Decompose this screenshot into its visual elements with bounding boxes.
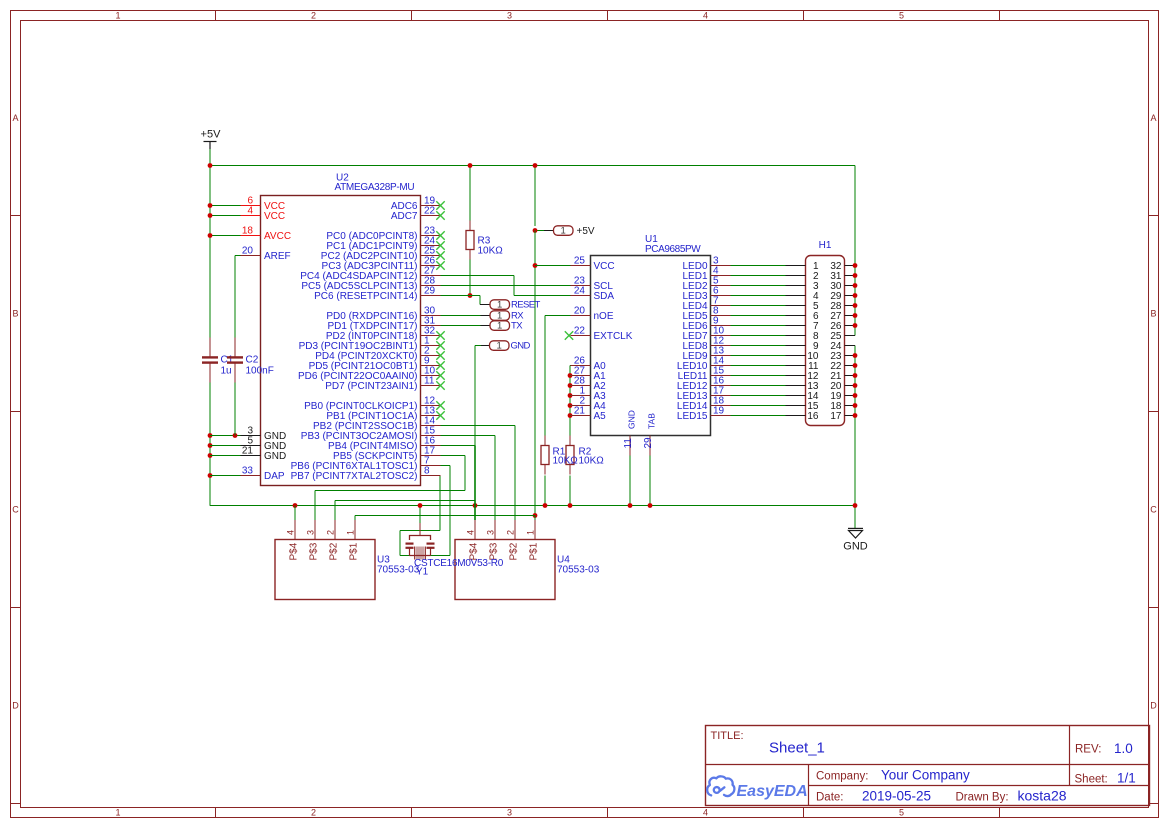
wire PC6 to RESET flag [441, 295, 481, 297]
junction R2 GND [568, 503, 573, 508]
U3 pin 2 P$2 [326, 520, 340, 561]
junction H1 gnd/vcc rail [853, 283, 858, 288]
power +5V symbol top-left [201, 129, 222, 150]
wire +5V top rail [210, 165, 855, 167]
wire PB7 to resonator left [439, 476, 441, 531]
wire LED2 to H1 [731, 285, 786, 287]
svg-text:11: 11 [424, 376, 435, 387]
U2 pin 25 PC2 (ADC2PCINT10) [321, 246, 445, 263]
svg-text:2: 2 [311, 808, 316, 818]
resistor R2 label [579, 447, 605, 467]
U1 pin 27 A1 [571, 366, 607, 383]
H1 pin 18 [830, 401, 855, 412]
U2 pin 1 PD3 (PCINT19OC2BINT1) [299, 336, 445, 353]
wire LED0 to H1 [731, 265, 786, 267]
svg-text:2: 2 [506, 530, 516, 535]
svg-text:33: 33 [242, 466, 254, 477]
junction VCC6 [208, 203, 213, 208]
wire bus2 +5V lower [355, 515, 535, 517]
svg-text:5: 5 [899, 808, 904, 818]
junction H1 gnd/vcc rail [853, 393, 858, 398]
svg-text:Company:: Company: [816, 771, 868, 783]
junction A pin [568, 383, 573, 388]
junction H1 gnd/vcc rail [853, 263, 858, 268]
U1 pin 15 LED11 [678, 366, 731, 383]
U2 pin 23 PC0 (ADC0PCINT8) [326, 226, 444, 243]
wire +5V flag stub green [535, 230, 544, 232]
wire U2 DAP to rail [210, 475, 241, 477]
junction A pin [568, 403, 573, 408]
svg-text:P$1: P$1 [349, 542, 360, 560]
wire LED9 to H1 [731, 355, 786, 357]
junction AVCC [208, 233, 213, 238]
H1 pin 12 [786, 371, 819, 382]
wire TX [441, 325, 481, 327]
svg-text:+5V: +5V [201, 129, 222, 141]
wire C2 bottom to GND rail [234, 383, 236, 436]
wire LED7 to H1 [731, 335, 786, 337]
junction A pin [568, 393, 573, 398]
wire LED12 to H1 [731, 385, 786, 387]
wire U2 GND pin5 to rail [210, 445, 241, 447]
junction U1 VCC net [533, 263, 538, 268]
wire LED4 to H1 [731, 305, 786, 307]
svg-text:4: 4 [286, 530, 296, 535]
svg-text:C2: C2 [246, 355, 259, 366]
U2 pin 10 PD6 (PCINT22OC0AAIN0) [298, 366, 445, 383]
svg-text:25: 25 [574, 256, 586, 267]
wire U2 GND pin3 to rail [210, 435, 241, 437]
title text [711, 730, 1136, 804]
U3 pin 4 P$4 [286, 520, 300, 561]
IC U1 PCA9685PW body [591, 234, 711, 436]
junction DAP [208, 473, 213, 478]
junction bus to gnd column [853, 503, 858, 508]
U2 pin 20 AREF [241, 246, 291, 263]
junction H1 gnd/vcc rail [853, 353, 858, 358]
wire GND bus to GND symbol [854, 166, 856, 336]
H1 pin 11 [786, 361, 819, 372]
resistor R3 10K [466, 221, 503, 260]
svg-text:16: 16 [807, 411, 819, 422]
wire A pin link [569, 375, 572, 377]
H1 pin 3 [786, 281, 819, 292]
svg-text:AVCC: AVCC [264, 231, 291, 242]
svg-text:LED15: LED15 [677, 411, 708, 422]
U2 pin 17 PB5 (SCKPCINT5) [333, 446, 440, 463]
H1 pin 13 [786, 381, 819, 392]
U2 pin 22 ADC7 [391, 206, 445, 223]
wire GND bus bottom [210, 505, 855, 507]
svg-text:8: 8 [424, 466, 430, 477]
wire resonator center to GND bus [419, 506, 421, 524]
wire A pin link [569, 405, 572, 407]
junction VCC4 [208, 213, 213, 218]
U1 pin 2 A4 [571, 396, 607, 413]
U2 pin 29 PC6 (RESETPCINT14) [314, 286, 440, 303]
wire PB5 to U3 P$3 [441, 455, 466, 457]
wire LED3 to H1 [731, 295, 786, 297]
H1 pin 5 [786, 301, 819, 312]
svg-text:AREF: AREF [264, 251, 291, 262]
svg-text:1: 1 [115, 11, 120, 21]
svg-text:B: B [12, 309, 18, 319]
wire A pin link [569, 415, 572, 417]
U2 pin 30 PD0 (RXDPCINT16) [326, 306, 440, 323]
frame column labels [115, 11, 904, 818]
svg-text:P$2: P$2 [329, 542, 340, 560]
H1 pin 29 [830, 291, 855, 302]
U2 pin 7 PB6 (PCINT6XTAL1TOSC1) [291, 456, 441, 473]
U1 pin 22 EXTCLK [565, 326, 633, 343]
U2 pin 4 VCC [241, 206, 286, 223]
wire U1 GND pin down [629, 456, 631, 506]
svg-text:C1: C1 [221, 355, 234, 366]
U1 pin 1 A3 [571, 386, 607, 403]
junction H1 gnd/vcc rail [853, 413, 858, 418]
wire resonator bottom link [400, 555, 450, 557]
H1 pin 7 [786, 321, 819, 332]
U1 pin 12 LED8 [682, 336, 730, 353]
title block [706, 726, 1150, 806]
wire U1 VCC [535, 265, 571, 267]
svg-text:21: 21 [242, 446, 254, 457]
capacitor C1 [202, 338, 234, 383]
junction H1 gnd/vcc rail [853, 273, 858, 278]
H1 pin 32 [830, 261, 855, 272]
U1 pin 8 LED5 [682, 306, 730, 323]
IC U2 ATMEGA328P-MU body [261, 173, 421, 486]
U2 pin 12 PB0 (PCINT0CLKOICP1) [304, 396, 445, 413]
svg-text:EasyEDA: EasyEDA [737, 783, 808, 800]
EasyEDA logo [707, 776, 807, 800]
wire +5V symbol to C1 / GND column left [209, 149, 211, 338]
U1 pin 7 LED4 [682, 296, 730, 313]
H1 pin 1 [786, 261, 819, 272]
U2 pin 9 PD5 (PCINT21OC0BT1) [309, 356, 445, 373]
wire LED5 to H1 [731, 315, 786, 317]
svg-text:PCA9685PW: PCA9685PW [645, 244, 701, 255]
H1 pin 9 [786, 341, 819, 352]
H1 pin 2 [786, 271, 819, 282]
svg-text:Your Company: Your Company [881, 768, 970, 783]
U1 pin 21 A5 [571, 406, 607, 423]
svg-text:4: 4 [703, 11, 708, 21]
resistor R1 10K [541, 436, 549, 475]
wire A0-A5 column to R2 [569, 366, 571, 436]
svg-text:2: 2 [311, 11, 316, 21]
svg-text:A: A [12, 113, 18, 123]
svg-text:EXTCLK: EXTCLK [594, 331, 633, 342]
connector U4 70553-03 body [455, 540, 600, 600]
wire R3 top [469, 166, 471, 221]
wire U2 VCC pin4 to rail [210, 215, 241, 217]
U1 pin 29 TAB bottom [643, 413, 657, 456]
junction +5V left [208, 163, 213, 168]
svg-text:4: 4 [703, 808, 708, 818]
U2 pin 31 PD1 (TXDPCINT17) [327, 316, 440, 333]
svg-text:P$3: P$3 [309, 542, 320, 560]
wire A pin link [569, 385, 572, 387]
U4 pin 2 P$2 [506, 520, 520, 561]
wire C1 lower to GND pins column [209, 383, 211, 506]
net flag +5V [544, 225, 595, 237]
U2 pin 21 GND [241, 446, 287, 463]
svg-text:ADC7: ADC7 [391, 211, 418, 222]
svg-text:P$2: P$2 [509, 542, 520, 560]
svg-text:TX: TX [511, 321, 523, 332]
svg-text:Sheet_1: Sheet_1 [769, 740, 825, 757]
U1 pin 28 A2 [571, 376, 607, 393]
wire LED13 to H1 [731, 395, 786, 397]
resistor R1 label [553, 447, 579, 467]
svg-text:3: 3 [486, 530, 496, 535]
wire nOE to R1 [545, 315, 571, 317]
H1 pin 21 [830, 371, 855, 382]
H1 pin 25 [830, 331, 855, 342]
U2 pin 18 AVCC [241, 226, 292, 243]
svg-text:B: B [1150, 309, 1156, 319]
wire U3 P$4 up to bus [294, 506, 296, 521]
wire +5V column to U1 VCC [534, 231, 536, 516]
U2 pin 2 PD4 (PCINT20XCKT0) [315, 346, 444, 363]
junction H1 gnd/vcc rail [853, 293, 858, 298]
svg-text:29: 29 [424, 286, 436, 297]
junction GND pin5 [208, 443, 213, 448]
H1 pin 16 [786, 411, 819, 422]
svg-text:1: 1 [526, 530, 536, 535]
H1 pin 14 [786, 391, 819, 402]
junction +5V flag [533, 228, 538, 233]
junction H1 gnd/vcc rail [853, 383, 858, 388]
svg-text:1: 1 [115, 808, 120, 818]
svg-text:100nF: 100nF [246, 366, 274, 377]
svg-text:RESET: RESET [511, 300, 540, 311]
capacitor C2 [227, 338, 274, 383]
connector H1 body [806, 240, 845, 426]
wire PB3 to U4 P$3 [441, 435, 496, 437]
svg-text:TAB: TAB [647, 413, 657, 429]
svg-text:1: 1 [346, 530, 356, 535]
junction A pin [568, 373, 573, 378]
U1 pin 19 LED15 [677, 406, 731, 423]
U1 pin 13 LED9 [682, 346, 730, 363]
svg-text:GND: GND [511, 341, 531, 352]
wire U1 TAB down [649, 456, 651, 506]
svg-text:P$1: P$1 [529, 542, 540, 560]
svg-text:3: 3 [507, 808, 512, 818]
svg-text:5: 5 [899, 11, 904, 21]
junction R3 top [468, 163, 473, 168]
U2 pin 32 PD2 (INT0PCINT18) [326, 326, 445, 343]
wire LED10 to H1 [731, 365, 786, 367]
junction A pin [568, 413, 573, 418]
wire +5V column [534, 166, 536, 227]
H1 pin 26 [830, 321, 855, 332]
H1 pin 31 [830, 271, 855, 282]
net flag RESET [480, 299, 540, 310]
svg-text:TITLE:: TITLE: [711, 730, 744, 742]
svg-text:GND: GND [627, 410, 637, 429]
svg-text:2: 2 [326, 530, 336, 535]
svg-text:1: 1 [497, 299, 502, 310]
H1 pin 22 [830, 361, 855, 372]
U4 pin 4 P$4 [466, 520, 480, 561]
svg-text:19: 19 [713, 406, 725, 417]
wire SCL [441, 285, 571, 287]
U4 pin 1 P$1 [526, 520, 540, 561]
junction C2 bottom [233, 433, 238, 438]
svg-text:17: 17 [830, 411, 842, 422]
H1 pin 10 [786, 351, 819, 362]
svg-text:2019-05-25: 2019-05-25 [862, 789, 931, 804]
wire SDA from PC4 [441, 275, 515, 277]
U1 pin 24 SDA [571, 286, 615, 303]
U2 pin 11 PD7 (PCINT23AIN1) [325, 376, 444, 393]
U1 pin 14 LED10 [677, 356, 731, 373]
svg-text:10KΩ: 10KΩ [478, 246, 504, 257]
H1 pin 15 [786, 401, 819, 412]
svg-text:21: 21 [574, 406, 586, 417]
U3 pin 3 P$3 [306, 520, 320, 561]
H1 pin 19 [830, 391, 855, 402]
svg-text:PD7 (PCINT23AIN1): PD7 (PCINT23AIN1) [325, 381, 417, 392]
svg-text:70553-03: 70553-03 [557, 565, 600, 576]
U2 pin 16 PB4 (PCINT4MISO) [328, 436, 440, 453]
svg-text:GND: GND [264, 451, 286, 462]
junction H1 gnd/vcc rail [853, 313, 858, 318]
wire LED11 to H1 [731, 375, 786, 377]
wire R2 bottom to GND bus [569, 476, 571, 506]
net flag TX [481, 320, 524, 331]
svg-text:1: 1 [561, 225, 566, 236]
svg-text:ATMEGA328P-MU: ATMEGA328P-MU [335, 182, 415, 193]
U1 pin 16 LED12 [677, 376, 731, 393]
U2 pin 5 GND [241, 436, 287, 453]
H1 pin 24 [830, 341, 855, 352]
U1 pin 5 LED2 [682, 276, 730, 293]
junction resonator GND [418, 503, 423, 508]
svg-text:1.0: 1.0 [1114, 741, 1133, 756]
svg-text:PC6 (RESETPCINT14): PC6 (RESETPCINT14) [314, 291, 417, 302]
svg-text:H1: H1 [819, 240, 832, 251]
H1 pin 30 [830, 281, 855, 292]
junction U1 TAB [648, 503, 653, 508]
svg-text:Drawn By:: Drawn By: [956, 792, 1009, 804]
U2 pin 33 DAP [241, 466, 285, 483]
U1 pin 9 LED6 [682, 316, 730, 333]
net flag RX [481, 310, 525, 321]
svg-text:20: 20 [242, 246, 254, 257]
svg-text:A: A [1150, 113, 1156, 123]
net flag GND [481, 340, 531, 351]
svg-text:29: 29 [643, 437, 654, 449]
U2 pin 14 PB2 (PCINT2SSOC1B) [313, 416, 440, 433]
U2 pin 8 PB7 (PCINT7XTAL2TOSC2) [291, 466, 441, 483]
U2 pin 19 ADC6 [391, 196, 445, 213]
U1 pin 6 LED3 [682, 286, 730, 303]
junction +5V bus2 end [533, 513, 538, 518]
frame row labels [12, 113, 1157, 711]
U1 pin 18 LED14 [677, 396, 731, 413]
svg-text:Date:: Date: [816, 792, 844, 804]
wire U2 GND pin21 to rail [210, 455, 241, 457]
svg-text:24: 24 [574, 286, 586, 297]
H1 pin 8 [786, 331, 819, 342]
U2 pin 15 PB3 (PCINT3OC2AMOSI) [301, 426, 441, 443]
U1 pin 17 LED13 [677, 386, 731, 403]
svg-text:1: 1 [497, 320, 502, 331]
H1 pin 17 [830, 411, 855, 422]
wire PB2 to U4 P$2 [441, 425, 516, 427]
wire PB4 to U4 P$4 [441, 445, 476, 447]
U1 pin 23 SCL [571, 276, 614, 293]
U1 pin 4 LED1 [682, 266, 730, 283]
svg-text:3: 3 [507, 11, 512, 21]
junction PB4 U3 P$4 column [293, 503, 298, 508]
U2 pin 6 VCC [241, 196, 286, 213]
svg-text:P$4: P$4 [289, 542, 300, 560]
junction +5V column top [533, 163, 538, 168]
svg-text:22: 22 [574, 326, 586, 337]
wire A pin link [569, 395, 572, 397]
svg-text:D: D [12, 701, 19, 711]
U2 pin 27 PC4 (ADC4SDAPCINT12) [300, 266, 440, 283]
wire GND flag column [474, 346, 476, 521]
svg-text:GND: GND [843, 541, 868, 553]
junction GND pin3 [208, 433, 213, 438]
U1 pin 25 VCC [571, 256, 615, 273]
svg-text:D: D [1150, 701, 1157, 711]
U1 pin 3 LED0 [682, 256, 730, 273]
resonator Y1 CSTCE16M0V53-R0 [406, 523, 435, 560]
junction GND pin21 [208, 453, 213, 458]
U2 pin 13 PB1 (PCINT1OC1A) [326, 406, 444, 423]
svg-text:1/1: 1/1 [1117, 771, 1136, 786]
svg-text:11: 11 [623, 438, 634, 449]
resonator Y1 label [414, 558, 504, 578]
svg-text:SDA: SDA [594, 291, 615, 302]
U1 pin 20 nOE [571, 306, 614, 323]
svg-text:Y1: Y1 [416, 567, 429, 578]
wire LED15 to H1 [731, 415, 786, 417]
svg-text:22: 22 [424, 206, 436, 217]
svg-text:10KΩ: 10KΩ [579, 456, 605, 467]
U1 pin 10 LED7 [682, 326, 730, 343]
wire LED8 to H1 [731, 345, 786, 347]
svg-text:nOE: nOE [594, 311, 614, 322]
ground symbol GND [843, 528, 868, 552]
svg-text:3: 3 [306, 530, 316, 535]
junction R3 reset net [468, 293, 473, 298]
U1 pin 11 GND bottom [623, 410, 637, 455]
wire U4 P$1 from bus2 [534, 516, 536, 521]
svg-text:PB7 (PCINT7XTAL2TOSC2): PB7 (PCINT7XTAL2TOSC2) [291, 471, 418, 482]
junction H1 gnd/vcc rail [853, 303, 858, 308]
svg-text:20: 20 [574, 306, 586, 317]
U3 pin 1 P$1 [346, 520, 360, 561]
junction U1 GND [628, 503, 633, 508]
svg-text:4: 4 [466, 530, 476, 535]
wire H1 gnd column [854, 346, 856, 529]
svg-text:Sheet:: Sheet: [1075, 774, 1108, 786]
U4 pin 3 P$3 [486, 520, 500, 561]
U1 pin 26 A0 [571, 356, 607, 373]
wire U2 AVCC to rail [210, 235, 241, 237]
svg-text:kosta28: kosta28 [1018, 788, 1067, 804]
junction R1 GND [543, 503, 548, 508]
svg-text:10KΩ: 10KΩ [553, 456, 579, 467]
